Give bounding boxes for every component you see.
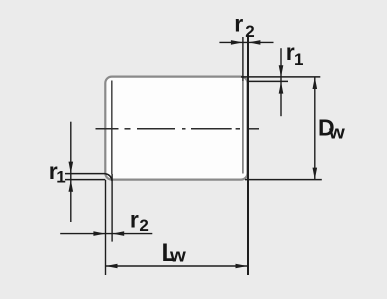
wire right edge dark overlay / extension for r2 top and Lw right <box>247 35 249 275</box>
wire bottom edge extension left <box>65 179 105 181</box>
svg-text:r: r <box>234 11 243 37</box>
wire r1 top tangent extension (line B) <box>248 80 289 82</box>
roller left end-face edge line <box>111 81 113 175</box>
dimension r1 top right <box>279 48 284 116</box>
svg-text:r: r <box>130 206 139 232</box>
svg-text:w: w <box>169 245 187 266</box>
wire bottom edge extension right (Dw) <box>245 179 322 181</box>
label Lw <box>162 239 187 267</box>
wire r1 left tangent extension <box>65 173 105 175</box>
svg-text:2: 2 <box>139 216 148 235</box>
wire top edge extension (line A) <box>241 76 320 78</box>
roller right end-face edge line <box>242 81 244 174</box>
svg-text:w: w <box>328 122 346 143</box>
svg-text:1: 1 <box>56 167 65 186</box>
label r1 left <box>49 158 66 186</box>
wire r2 bottom inner extension line <box>111 174 113 242</box>
dimension Dw <box>313 77 318 180</box>
wire Lw left extension line <box>105 180 107 275</box>
svg-text:1: 1 <box>294 50 303 69</box>
wire r2 top inner extension line <box>242 37 244 81</box>
label Dw <box>318 115 345 143</box>
roller body outline <box>105 77 247 180</box>
dimension Lw <box>106 264 248 269</box>
wire bottom-left corner radius arc <box>105 174 112 181</box>
centerline <box>96 128 260 130</box>
label r2 bottom <box>130 206 149 235</box>
label r1 top right <box>286 39 304 69</box>
dimension r2 top <box>219 40 273 45</box>
dimension r1 left <box>69 122 74 222</box>
dimension r2 bottom <box>60 231 152 236</box>
label r2 top <box>234 11 254 41</box>
svg-text:2: 2 <box>245 22 254 41</box>
